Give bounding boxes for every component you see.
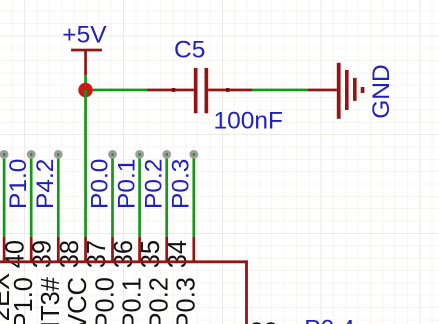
junction dot <box>78 83 92 97</box>
IC U1 pin 40 <box>3 237 6 262</box>
power symbol +5V pin <box>84 49 87 75</box>
svg-text:P0.1: P0.1 <box>113 159 140 209</box>
wire end dot net P0.0 <box>110 151 116 157</box>
svg-text:P0.3: P0.3 <box>168 159 195 209</box>
svg-text:GND: GND <box>368 64 395 118</box>
wire net P4.2 <box>57 153 60 237</box>
wire end dot net P0.1 <box>137 151 143 157</box>
svg-text:P0.3: P0.3 <box>173 277 201 324</box>
capacitor C5 right pin <box>208 89 252 92</box>
IC U1 body right edge <box>245 260 248 324</box>
wire end dot net P0.3 <box>191 151 197 157</box>
wire net P0.2 <box>165 153 168 237</box>
wire net P1.0 <box>30 153 33 237</box>
ground symbol bar 4 <box>361 87 365 93</box>
svg-text:35: 35 <box>137 240 165 268</box>
svg-text:100nF: 100nF <box>214 107 283 134</box>
wire end dot net P1.0 <box>28 151 34 157</box>
wire from +5V to junction <box>84 75 87 90</box>
IC U1 pin 37 <box>84 237 87 262</box>
wire end dot net P4.2 <box>55 151 61 157</box>
svg-text:34: 34 <box>164 240 192 268</box>
ground symbol bar 2 <box>345 70 349 110</box>
wire net 40 <box>3 153 6 237</box>
svg-text:38: 38 <box>56 240 84 268</box>
svg-text:VCC: VCC <box>64 277 92 324</box>
IC U1 pin 36 <box>111 237 114 262</box>
svg-text:+5V: +5V <box>62 22 107 49</box>
svg-text:P0.2: P0.2 <box>141 159 168 209</box>
wire +5V net to VCC pin <box>84 90 87 237</box>
IC U1 body top edge <box>0 260 248 263</box>
capacitor C5 left plate <box>194 68 198 113</box>
wire C5 to GND <box>252 89 308 92</box>
svg-text:C5: C5 <box>174 36 205 63</box>
svg-text:P0.1: P0.1 <box>118 277 146 324</box>
capacitor C5 left pin end dot <box>172 88 175 92</box>
svg-text:P0.2: P0.2 <box>146 277 174 324</box>
svg-text:P0.0: P0.0 <box>91 277 119 324</box>
wire net P0.1 <box>138 153 141 237</box>
ground symbol pin <box>308 89 337 92</box>
IC U1 pin 38 <box>57 237 60 262</box>
svg-text:P1.0: P1.0 <box>10 277 38 324</box>
wire net P0.3 <box>192 153 195 237</box>
svg-text:P0.4: P0.4 <box>304 316 354 324</box>
svg-text:P0.0: P0.0 <box>86 159 113 209</box>
svg-text:33: 33 <box>250 319 278 324</box>
wire net P0.0 <box>111 153 114 237</box>
svg-text:P4.2: P4.2 <box>32 159 59 209</box>
svg-text:37: 37 <box>83 240 111 268</box>
power symbol +5V bar <box>71 49 102 52</box>
ground symbol bar 3 <box>353 78 357 101</box>
capacitor C5 right pin end dot <box>226 88 229 92</box>
IC U1 pin 33 <box>192 237 195 262</box>
capacitor C5 right plate <box>205 68 209 113</box>
IC U1 pin 34 <box>165 237 168 262</box>
IC U1 pin 35 <box>138 237 141 262</box>
IC U1 pin 39 <box>30 237 33 262</box>
ground symbol bar 1 <box>337 63 341 119</box>
svg-text:40: 40 <box>2 240 30 268</box>
svg-text:36: 36 <box>110 240 138 268</box>
svg-text:P1.0: P1.0 <box>5 159 32 209</box>
wire end dot net 40 <box>1 151 7 157</box>
wire junction to C5 <box>86 89 148 92</box>
capacitor C5 left pin <box>147 89 194 92</box>
svg-text:39: 39 <box>29 240 57 268</box>
svg-text:IT3#: IT3# <box>37 276 65 324</box>
wire end dot net P0.2 <box>164 151 170 157</box>
